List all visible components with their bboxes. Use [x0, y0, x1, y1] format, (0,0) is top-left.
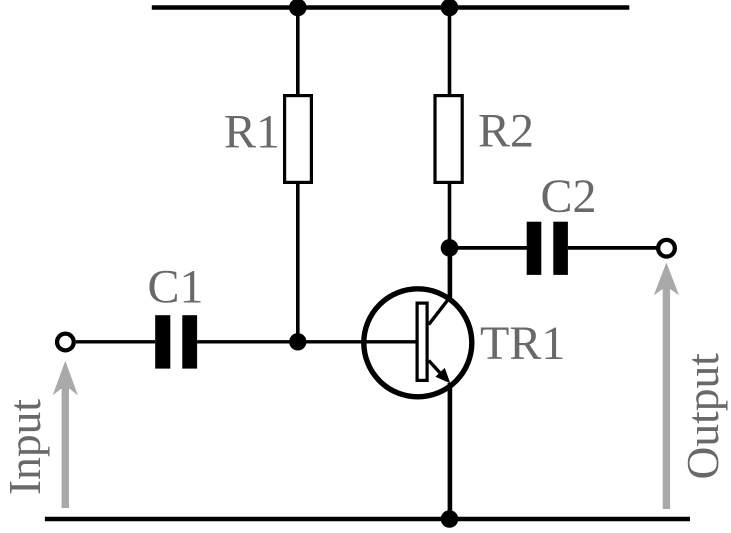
junction: collector / output: [441, 239, 459, 257]
svg-text:R2: R2: [478, 105, 534, 158]
svg-text:Input: Input: [0, 399, 50, 495]
wire: input right segment / base wire: [197, 340, 415, 343]
wire: R2 bottom lead: [448, 182, 452, 248]
wire: output left segment: [450, 246, 529, 250]
transistor TR1 base bar: [417, 303, 427, 380]
input terminal: [57, 334, 74, 351]
junction: base / R1: [289, 333, 306, 350]
junction: top rail / R1: [289, 0, 307, 16]
output arrow (gray): [654, 263, 679, 510]
wire: input left segment: [76, 340, 155, 343]
svg-text:Output: Output: [677, 353, 728, 480]
wire: output right segment: [568, 246, 657, 250]
svg-text:R1: R1: [224, 106, 280, 159]
transistor TR1 body circle: [364, 289, 472, 397]
resistor R2: [435, 96, 462, 183]
capacitor C1: [155, 315, 170, 368]
svg-text:C2: C2: [541, 170, 597, 223]
junction: top rail / R2: [441, 0, 459, 16]
wire: R1 top lead: [296, 8, 300, 97]
input arrow (gray): [53, 361, 78, 508]
wire: R1 bottom lead: [296, 182, 300, 342]
svg-text:C1: C1: [148, 260, 204, 313]
supply rail (top): [152, 5, 630, 10]
output terminal: [658, 240, 675, 257]
transistor TR1 emitter diagonal with arrow: [429, 361, 447, 381]
junction: emitter / ground rail: [441, 510, 459, 528]
ground rail (bottom): [45, 517, 690, 522]
svg-text:TR1: TR1: [480, 317, 565, 370]
wire: R2 top lead: [448, 8, 452, 97]
capacitor C2: [527, 222, 542, 275]
transistor TR1 collector diagonal: [429, 297, 451, 325]
resistor R1: [285, 96, 312, 183]
wire: collector vertical: [448, 248, 453, 300]
wire: emitter vertical: [448, 383, 453, 519]
